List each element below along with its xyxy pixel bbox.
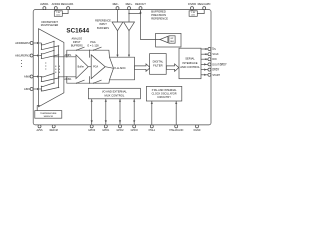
label crosspoint multiplexer [41, 20, 59, 27]
pin DGND [194, 125, 201, 132]
bus arrow ADC to digital filter [135, 64, 151, 71]
wire AIN0/REFP2 into multiplexer [33, 42, 41, 44]
bypass switch top 1 [76, 47, 85, 51]
pin AIN9 [24, 88, 33, 92]
label analog input buffers [71, 36, 83, 47]
svg-text:LDO: LDO [56, 15, 60, 17]
svg-text:XTAL2/CLKIN: XTAL2/CLKIN [169, 129, 184, 132]
svg-text:SC1644: SC1644 [66, 27, 89, 34]
bypass switch top 2 [93, 47, 102, 51]
wire temperature sensor to multiplexer [37, 106, 40, 111]
pin START [201, 73, 221, 77]
svg-text:PGA: PGA [93, 66, 98, 69]
svg-text:PRECISION: PRECISION [151, 13, 166, 17]
svg-text:REFERENCE: REFERENCE [95, 18, 111, 22]
pin IOVDD [191, 7, 194, 10]
wire AIN1/REFN2 into multiplexer [33, 54, 41, 56]
pin REF+ [128, 7, 131, 10]
svg-text:AVSS: AVSS [37, 129, 43, 132]
wire REGCAPD to digital LDO output [197, 10, 204, 14]
pin AVDD2 [54, 7, 57, 10]
analog 1.8V LDO box [54, 11, 62, 17]
ellipsis dots inside multiplexer [45, 62, 60, 72]
pin DOUT/D&#x305;R&#x305;D&#x305;Y&#x305; [201, 63, 227, 67]
svg-text:REF+: REF+ [126, 2, 133, 6]
multiplexer output column P [53, 41, 55, 83]
buffer/PGA bypass rail top [66, 50, 109, 57]
wire AIN8 into multiplexer [33, 75, 41, 77]
wire buffer A to ADC ref input [117, 31, 119, 56]
bypass stub mid top [89, 50, 90, 58]
mux switch S4 [41, 54, 59, 59]
mux input split bar 1 [41, 43, 43, 49]
mux switch S7 [41, 82, 55, 87]
svg-text:DOUT/D̅R̅D̅Y̅: DOUT/D̅R̅D̅Y̅ [212, 63, 227, 66]
label buffered precision reference [151, 10, 168, 21]
pin XTAL2/CLKIN [169, 101, 184, 132]
wire mux output N (AINN1) [59, 76, 76, 78]
wire mux output P (AINP1) [54, 56, 76, 58]
pin GPIO1 [102, 99, 110, 132]
svg-text:XTAL AND INTERNAL: XTAL AND INTERNAL [152, 89, 177, 92]
svg-text:̅C̅S: ̅C̅S [211, 48, 216, 51]
svg-text:AIN8: AIN8 [24, 76, 30, 79]
digital 1.8V LDO box [189, 11, 197, 17]
svg-text:IOVDD: IOVDD [188, 2, 196, 6]
svg-text:AIN9: AIN9 [24, 88, 30, 91]
mux switch S5 [41, 73, 55, 78]
pin REFOUT [139, 7, 142, 10]
svg-text:START: START [212, 74, 220, 77]
pin D&#x305;R&#x305;D&#x305;Y&#x305; [201, 68, 220, 72]
pin GPIO0 [88, 99, 96, 132]
junction column N output [58, 76, 59, 77]
junction REF+ rail [128, 13, 129, 14]
label reference input buffers [95, 18, 111, 30]
wire REF- to buffer A [117, 10, 119, 22]
svg-text:PGA: PGA [90, 40, 96, 44]
pin GPIO2 [116, 99, 124, 132]
PGA amplifier [91, 55, 105, 79]
serial interface and control box [179, 48, 201, 78]
chip outline (device boundary) [33, 10, 211, 125]
buffer amplifier (differential) [76, 55, 88, 79]
svg-text:AND CONTROL: AND CONTROL [180, 65, 200, 69]
svg-text:CLOCK OSCILLATOR: CLOCK OSCILLATOR [152, 92, 177, 95]
pin REGCAPD [203, 7, 206, 10]
arrowhead REFOUT up [139, 11, 141, 14]
svg-text:Buffer: Buffer [78, 66, 85, 69]
arrowhead into ADC ref B [128, 55, 130, 58]
mux input split bar 4 [41, 86, 43, 91]
svg-text:Σ-Δ ADC: Σ-Δ ADC [114, 66, 125, 70]
label PGA gain [87, 40, 99, 48]
mux input split bar 3 [41, 77, 43, 82]
ellipsis dots input pins [21, 60, 22, 67]
pin XTAL1 [148, 101, 156, 132]
svg-text:AVDD1: AVDD1 [40, 2, 49, 6]
svg-text:MUX CONTROL: MUX CONTROL [104, 93, 124, 97]
svg-text:AIN0/REFP2: AIN0/REFP2 [15, 42, 30, 45]
svg-text:CIRCUITRY: CIRCUITRY [157, 96, 171, 99]
svg-text:BUFFERED: BUFFERED [151, 10, 166, 14]
multiplexer output column N [58, 46, 60, 88]
svg-text:LDO: LDO [191, 15, 195, 17]
svg-text:D̅R̅D̅Y̅: D̅R̅D̅Y̅ [212, 69, 219, 72]
mux switch S3 [41, 50, 55, 55]
svg-text:G = 1-128: G = 1-128 [87, 43, 99, 47]
svg-text:DGND: DGND [194, 130, 201, 132]
mux switch S2 [41, 45, 59, 50]
arrowhead into ADC ref A [116, 55, 118, 58]
svg-text:XTAL1: XTAL1 [148, 129, 156, 132]
pin REF- [116, 7, 119, 10]
reference input buffer B (op-amp) [124, 22, 135, 31]
pin AVSS [37, 125, 43, 132]
svg-text:BUFFERS: BUFFERS [97, 26, 109, 30]
wire REF+ to buffer B [128, 10, 130, 22]
wire reference output to REFOUT pin [141, 10, 160, 40]
mux switch S8 [41, 87, 59, 92]
svg-text:INPUT: INPUT [99, 22, 107, 26]
junction REFOUT rail [140, 13, 141, 14]
svg-text:INTERFACE: INTERFACE [182, 61, 197, 65]
crosspoint multiplexer outline [39, 29, 64, 107]
svg-text:REGCAPA: REGCAPA [61, 2, 74, 6]
sigma-delta ADC block [110, 57, 135, 80]
pin REGCAPA [67, 7, 70, 10]
temperature sensor box [35, 111, 62, 119]
svg-text:GPIO2: GPIO2 [116, 130, 124, 132]
junction column P output [53, 56, 54, 57]
svg-text:ANALOG: ANALOG [71, 36, 82, 40]
svg-text:REGCAPD: REGCAPD [198, 2, 211, 6]
wire buffer B to ADC ref input [128, 31, 130, 56]
I/O and external mux control box [88, 88, 140, 99]
bypass switch bottom 1 [76, 80, 85, 84]
pin AIN1/REFN2 [15, 54, 33, 58]
internal reference routing rail [129, 13, 141, 15]
buffered precision reference block U-REF [156, 33, 181, 47]
svg-text:MULTIPLEXER: MULTIPLEXER [41, 23, 59, 27]
svg-text:INPUT: INPUT [73, 40, 81, 44]
svg-text:BUFFERS: BUFFERS [71, 43, 83, 47]
mux switch S6 [41, 77, 59, 82]
svg-text:AVDD2: AVDD2 [52, 2, 61, 6]
svg-text:GPIO0: GPIO0 [88, 130, 96, 132]
bypass stub mid bottom [89, 76, 90, 84]
svg-text:SCLK: SCLK [212, 53, 219, 56]
svg-text:I/O AND EXTERNAL: I/O AND EXTERNAL [102, 90, 127, 94]
bypass switch bottom 2 [93, 80, 102, 84]
reference input buffer A (op-amp) [112, 22, 123, 31]
svg-text:REFERENCE: REFERENCE [151, 17, 168, 21]
svg-text:SERIAL: SERIAL [185, 57, 195, 61]
pin AIN8 [24, 75, 33, 79]
pin REFCM [50, 125, 58, 132]
svg-text:TEMPERATURE: TEMPERATURE [40, 112, 57, 115]
mux input split bar 2 [41, 54, 43, 59]
svg-text:AINN1: AINN1 [64, 78, 72, 81]
wire IOVDD to digital LDO [191, 10, 193, 11]
pin AVDD1 [43, 7, 46, 10]
wire REGCAPA to analog LDO output [62, 10, 68, 14]
svg-text:GPIO3: GPIO3 [131, 130, 139, 132]
pin &#x305;C&#x305;S [201, 48, 216, 52]
svg-text:AINP1: AINP1 [64, 54, 72, 57]
svg-text:AIN1/REFN2: AIN1/REFN2 [15, 55, 30, 58]
crystal oscillator box [146, 86, 181, 101]
svg-text:REF-: REF- [113, 2, 119, 6]
pin SCLK [201, 53, 219, 57]
svg-text:SENSOR: SENSOR [44, 116, 54, 118]
pin DIN [201, 58, 217, 62]
svg-text:REFCM: REFCM [50, 130, 58, 132]
pin AIN0/REFP2 [15, 42, 33, 46]
svg-text:GPIO1: GPIO1 [102, 130, 110, 132]
mux switch S1 [41, 41, 55, 46]
svg-text:DIN: DIN [212, 58, 216, 61]
buffer/PGA bypass rail bottom [66, 76, 109, 83]
wire PGA output to ADC [105, 67, 113, 69]
digital filter box [150, 54, 167, 75]
wire AIN9 into multiplexer [33, 88, 41, 90]
pin GPIO3 [131, 99, 139, 132]
svg-text:REFOUT: REFOUT [135, 2, 146, 6]
svg-text:FILTER: FILTER [153, 63, 162, 67]
wire AVDD2 to analog LDO [55, 10, 57, 11]
wire buffer to PGA [88, 66, 91, 68]
bus arrow digital filter to serial interface [166, 64, 178, 71]
